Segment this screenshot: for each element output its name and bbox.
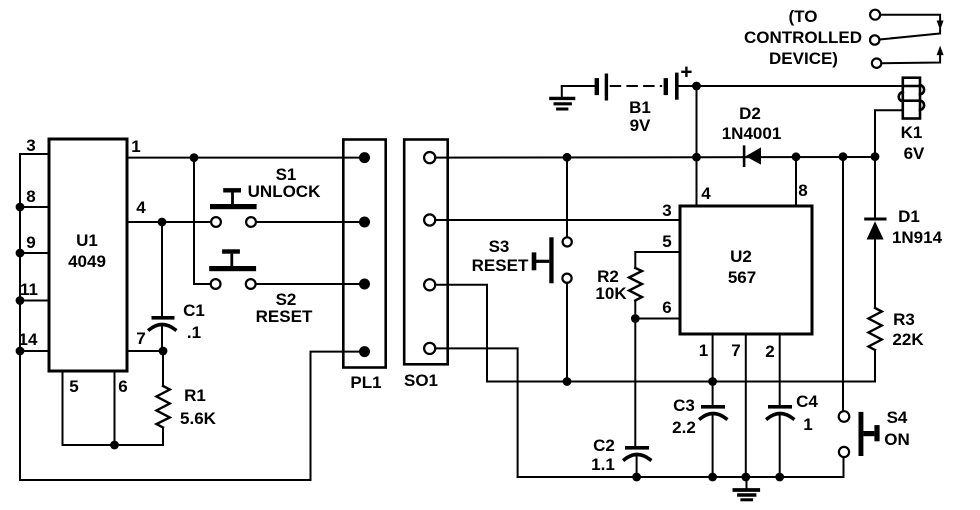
label C3 value <box>672 418 696 437</box>
pushbutton S1 <box>210 188 257 227</box>
svg-text:SO1: SO1 <box>404 371 438 390</box>
svg-text:DEVICE): DEVICE) <box>769 49 838 68</box>
wire U2 pin 8 <box>795 157 797 206</box>
label pin 8 <box>798 181 807 200</box>
relay contact terminal top <box>870 10 880 20</box>
svg-text:1: 1 <box>699 341 708 360</box>
node pin4 row junction <box>692 153 701 162</box>
svg-text:1: 1 <box>131 137 140 156</box>
node pin1 junction <box>190 153 199 162</box>
diode D2 1N4001 <box>744 147 761 166</box>
battery B1 cell 2 <box>666 74 677 98</box>
wire SO1 row2 to U2 pin 3 <box>435 219 680 221</box>
wire bottom rail left <box>20 352 363 480</box>
ground battery <box>551 86 595 109</box>
wire battery dashed <box>611 85 662 87</box>
svg-text:PL1: PL1 <box>350 373 381 392</box>
label TO CONTROLLED DEVICE <box>744 7 862 68</box>
capacitor C1 <box>150 222 176 351</box>
svg-text:1N914: 1N914 <box>892 228 943 247</box>
label SO1 <box>404 371 438 390</box>
node C4 ground junction <box>775 473 784 482</box>
svg-text:9V: 9V <box>630 116 651 135</box>
svg-text:8: 8 <box>26 187 35 206</box>
node C2 ground junction <box>632 473 641 482</box>
capacitor C4 <box>768 405 794 477</box>
node pin4 junction <box>158 218 167 227</box>
label C3 <box>673 396 695 415</box>
relay contact terminal middle <box>870 35 879 44</box>
label pin 3 <box>662 201 671 220</box>
wire U1 pins 5 and 6 to R1 bottom <box>63 371 164 445</box>
svg-text:1N4001: 1N4001 <box>722 124 782 143</box>
svg-text:D1: D1 <box>898 207 920 226</box>
svg-text:9: 9 <box>26 233 35 252</box>
label S2 <box>276 290 297 309</box>
IC U2 567 <box>680 206 812 334</box>
label R3 <box>893 310 915 329</box>
pin 1 label <box>131 137 140 156</box>
svg-text:5.6K: 5.6K <box>180 409 217 428</box>
label 1N4001 <box>722 124 782 143</box>
relay K1 coil <box>899 78 924 119</box>
node S3 top junction <box>563 153 572 162</box>
label C2 <box>593 436 615 455</box>
label UNLOCK <box>248 182 321 201</box>
label pin 1 <box>699 341 708 360</box>
wire pin1 junction down to S2 <box>194 158 211 284</box>
wire row to D1 <box>874 157 876 217</box>
svg-text:RESET: RESET <box>472 256 529 275</box>
svg-text:.1: .1 <box>187 323 201 342</box>
label pin 7 <box>731 341 740 360</box>
svg-text:4: 4 <box>136 198 146 217</box>
label S3 <box>489 237 510 256</box>
wire S2 to PL1 <box>256 283 363 285</box>
svg-text:4049: 4049 <box>68 252 106 271</box>
svg-text:567: 567 <box>728 268 756 287</box>
svg-text:5: 5 <box>662 232 671 251</box>
label D2 <box>739 104 761 123</box>
svg-text:22K: 22K <box>892 330 924 349</box>
label RESET S2 <box>256 307 313 326</box>
connector PL1 <box>343 140 385 368</box>
node C3 ground junction <box>708 473 717 482</box>
svg-text:C2: C2 <box>593 436 615 455</box>
resistor R2 <box>629 268 642 301</box>
label ON <box>884 430 910 449</box>
label 6V <box>904 144 925 163</box>
svg-text:1: 1 <box>803 415 812 434</box>
svg-text:(TO: (TO <box>789 7 818 26</box>
svg-text:U1: U1 <box>76 231 98 250</box>
svg-text:1.1: 1.1 <box>591 455 615 474</box>
svg-text:UNLOCK: UNLOCK <box>248 182 321 201</box>
wire SO1 row4 to ground rail <box>435 348 518 477</box>
wire U1 pin 3 to left bus <box>20 153 49 155</box>
label pin 4 <box>701 184 711 203</box>
wire relay contact middle armature <box>881 34 941 40</box>
pin 14 label <box>19 330 38 349</box>
label C2 value <box>591 455 615 474</box>
svg-text:6V: 6V <box>904 144 925 163</box>
node pin6 junction <box>110 441 119 450</box>
wire pin6 down to C2 <box>634 319 636 447</box>
pin 11 label <box>20 280 38 299</box>
wire SO1 row1 to K1/D1 node <box>435 156 875 159</box>
label pin 6 <box>662 298 671 317</box>
diode D1 1N914 <box>866 219 885 308</box>
svg-text:R1: R1 <box>184 386 206 405</box>
relay contact terminal bottom <box>872 59 881 68</box>
wire ground rail <box>518 476 844 478</box>
node pin7 ground junction <box>741 473 750 482</box>
wire U1 pin 1 to PL1 <box>127 157 363 159</box>
svg-text:7: 7 <box>731 341 740 360</box>
resistor R3 <box>869 308 882 382</box>
label C1 value <box>187 323 201 342</box>
wire U1 pin 7 <box>127 350 163 352</box>
label S4 <box>887 408 908 427</box>
battery plus sign <box>682 68 690 76</box>
node bus-pin11 <box>16 296 25 305</box>
node D1 row junction <box>871 152 880 161</box>
pushbutton S3 <box>532 237 572 283</box>
wire U2 pin 5 to R2 <box>635 252 680 268</box>
pin 9 label <box>26 233 35 252</box>
wire K1 lower terminal <box>875 110 903 156</box>
wire top rail to relay K1 <box>697 85 903 87</box>
battery B1 cell 1 <box>597 75 607 99</box>
wire relay contact top with arrow <box>880 15 943 32</box>
connector SO1 <box>404 140 448 365</box>
svg-text:B1: B1 <box>629 98 651 117</box>
label R2 value <box>595 284 627 303</box>
svg-text:3: 3 <box>26 136 35 155</box>
label 1N914 <box>892 228 943 247</box>
svg-text:C1: C1 <box>183 301 205 320</box>
svg-text:ON: ON <box>884 430 910 449</box>
wire left bus vertical <box>19 154 21 480</box>
IC U1 4049 <box>49 139 127 371</box>
label R3 value <box>892 330 924 349</box>
svg-text:K1: K1 <box>901 123 923 142</box>
node pin8 row junction <box>792 152 801 161</box>
wire S4 upper <box>842 157 844 411</box>
pin 7 label <box>136 329 145 348</box>
label 9V <box>630 116 651 135</box>
node pin6 junction <box>631 314 640 323</box>
svg-text:3: 3 <box>662 201 671 220</box>
node pin1 rail junction <box>708 377 717 386</box>
wire U1 pin 8 <box>20 206 49 208</box>
pushbutton S4 <box>839 411 880 457</box>
wire relay contact bottom with arrow <box>882 46 944 64</box>
node bus-pin14 <box>16 347 25 356</box>
svg-text:11: 11 <box>20 280 38 299</box>
label pin 2 <box>765 342 774 361</box>
label S1 <box>276 165 297 184</box>
wire battery junction to U2 pin 4 <box>696 86 698 206</box>
wire control rail <box>487 381 875 383</box>
svg-text:4: 4 <box>701 184 711 203</box>
wire S3 upper <box>566 157 568 237</box>
wire U1 pin 11 <box>20 300 49 302</box>
label D1 <box>898 207 920 226</box>
wire S1 to PL1 <box>256 221 363 223</box>
label R1 <box>184 386 206 405</box>
resistor R1 <box>157 351 170 445</box>
capacitor C3 <box>701 382 727 478</box>
label R1 value <box>180 409 217 428</box>
pin 3 label <box>26 136 35 155</box>
svg-text:2.2: 2.2 <box>672 418 696 437</box>
svg-text:8: 8 <box>798 181 807 200</box>
svg-text:CONTROLLED: CONTROLLED <box>744 28 862 47</box>
svg-text:S3: S3 <box>489 237 510 256</box>
svg-text:2: 2 <box>765 342 774 361</box>
svg-text:7: 7 <box>136 329 145 348</box>
wire S4 lower <box>843 457 845 477</box>
wire SO1 row3 to control rail <box>435 285 487 382</box>
node bus-pin9 <box>16 249 25 258</box>
svg-text:5: 5 <box>69 377 78 396</box>
wire U2 pin 7 <box>745 334 747 477</box>
node bus-pin8 <box>16 203 25 212</box>
wire battery to top rail <box>679 85 697 87</box>
ground main <box>734 477 758 500</box>
svg-text:6: 6 <box>662 298 671 317</box>
label RESET S3 <box>472 256 529 275</box>
wire S3 lower <box>566 283 568 382</box>
node battery junction <box>692 82 701 91</box>
pushbutton S2 <box>209 249 256 289</box>
svg-text:10K: 10K <box>595 284 627 303</box>
svg-text:U2: U2 <box>730 247 752 266</box>
svg-text:D2: D2 <box>739 104 761 123</box>
node pin7 junction <box>159 347 168 356</box>
wire U2 pin 2 <box>779 334 781 406</box>
label B1 <box>629 98 651 117</box>
wire R2 bottom to pin 6 <box>635 301 680 319</box>
wire U1 pin 14 <box>20 350 49 352</box>
svg-text:6: 6 <box>118 377 127 396</box>
svg-text:R3: R3 <box>893 310 915 329</box>
pin 8 label <box>26 187 35 206</box>
node S4 row junction <box>839 152 848 161</box>
label PL1 <box>350 373 381 392</box>
svg-text:S4: S4 <box>887 408 908 427</box>
label K1 <box>901 123 923 142</box>
label C4 <box>796 392 818 411</box>
wire U2 pin 1 <box>712 334 714 382</box>
capacitor C2 <box>625 446 651 477</box>
svg-text:C4: C4 <box>796 392 818 411</box>
pin 6 label <box>118 377 127 396</box>
node S3 bottom junction <box>563 377 572 386</box>
pin 5 label <box>69 377 78 396</box>
svg-text:RESET: RESET <box>256 307 313 326</box>
wire U1 pin 4 <box>127 221 211 223</box>
label C1 <box>183 301 205 320</box>
pin 4 label <box>136 198 146 217</box>
wire U1 pin 9 <box>20 252 49 254</box>
svg-text:14: 14 <box>19 330 38 349</box>
label C4 value <box>803 415 812 434</box>
label pin 5 <box>662 232 671 251</box>
svg-text:C3: C3 <box>673 396 695 415</box>
label R2 <box>597 267 619 286</box>
